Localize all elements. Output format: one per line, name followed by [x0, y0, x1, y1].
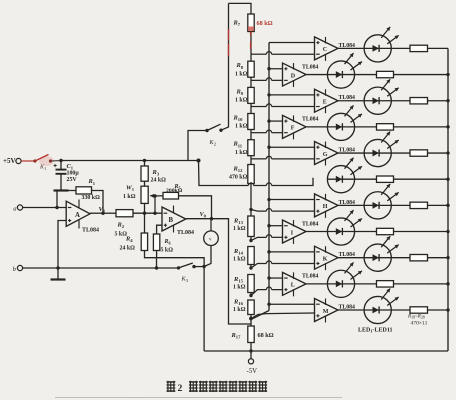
wire ladder tap to comparator row 7: [251, 210, 266, 212]
svg-text:470 kΩ: 470 kΩ: [229, 175, 248, 181]
wire op-amp I output to LED8: [306, 231, 327, 233]
wire op-amp H output to LED7: [338, 204, 364, 206]
node right bus row 6: [446, 178, 449, 181]
wire op-amp C output to LED1: [338, 47, 364, 49]
LED6: [327, 166, 354, 193]
resistor R27 470: [377, 281, 394, 287]
svg-text:LED1-LED11: LED1-LED11: [358, 328, 393, 334]
svg-text:1 kΩ: 1 kΩ: [233, 285, 246, 291]
wire LED8 to resistor: [355, 231, 377, 233]
resistor R5 200k feedback: [155, 195, 163, 197]
node ladder tap: [249, 266, 252, 269]
svg-text:1 kΩ: 1 kΩ: [235, 150, 248, 156]
node feedback junction: [55, 206, 58, 209]
node right bus row 7: [446, 204, 449, 207]
svg-text:470×11: 470×11: [411, 321, 428, 327]
resistor R7 68k: [248, 14, 254, 32]
resistor R21 470: [377, 124, 394, 130]
svg-text:2: 2: [178, 383, 183, 394]
caption figure 2 transient current detection circuit: [167, 381, 176, 383]
op-amp M TL084: [315, 299, 339, 322]
svg-text:F: F: [291, 126, 295, 132]
wire rail end down to LED6 feed: [199, 161, 249, 186]
wire V0 to ladder bottom return: [212, 219, 252, 324]
wire LED5 to resistor: [391, 152, 410, 154]
node -5V rail junction: [249, 349, 252, 352]
resistor R11 1 kohm: [250, 130, 252, 140]
svg-text:M: M: [323, 309, 329, 315]
wire resistor to right bus row 10: [394, 283, 449, 285]
wire R17 to -5V: [250, 343, 252, 359]
node right bus row 9: [446, 256, 449, 259]
node right bus row 3: [446, 99, 449, 102]
resistor R23 470: [377, 176, 394, 182]
svg-text:TL084: TL084: [302, 274, 319, 280]
node +5V terminal: [16, 158, 21, 163]
capacitor C1: [60, 161, 62, 170]
svg-text:+5V: +5V: [3, 157, 16, 165]
resistor R6 5k: [157, 225, 162, 234]
svg-text:H: H: [323, 204, 328, 210]
node ladder tap: [249, 239, 252, 242]
node right bus row 8: [446, 230, 449, 233]
resistor R12 470 kohm: [250, 156, 252, 165]
wire resistor to right bus row 4: [394, 126, 449, 128]
wire resistor to right bus row 9: [428, 257, 449, 259]
node ladder bottom junction: [249, 317, 253, 321]
node H tap: [249, 208, 252, 211]
svg-text:C: C: [323, 47, 327, 53]
red mark on left bypass wire: [228, 29, 230, 41]
ground below C1: [60, 179, 62, 190]
svg-text:D: D: [291, 73, 296, 79]
node right bus row 2: [446, 73, 449, 76]
op-amp I TL084: [283, 220, 307, 243]
node right bus row 4: [446, 125, 449, 128]
svg-text:1 kΩ: 1 kΩ: [233, 257, 246, 263]
node right bus row 5: [446, 151, 449, 154]
node V0: [210, 217, 213, 220]
svg-text:TL084: TL084: [302, 64, 319, 70]
wire LED2 to resistor: [355, 74, 377, 76]
resistor R18 470: [410, 45, 428, 51]
op-amp E TL084: [315, 89, 339, 112]
wire ladder tap to comparator row 3: [251, 106, 266, 108]
svg-text:24 kΩ: 24 kΩ: [120, 246, 136, 252]
wire bus to comparator C + input: [269, 42, 315, 44]
wire op-amp F output to LED4: [306, 126, 327, 128]
wire ladder tap to comparator row 11: [252, 313, 315, 318]
wire LED4 to resistor: [355, 126, 377, 128]
resistor R1 330k feedback: [57, 191, 76, 208]
LED2: [327, 61, 354, 88]
node bus tap row 9: [267, 250, 270, 253]
op-amp K TL084: [315, 246, 339, 269]
node a terminal: [17, 205, 22, 210]
op-amp H TL084: [315, 194, 339, 217]
svg-text:200kΩ: 200kΩ: [166, 188, 183, 194]
svg-text:L: L: [291, 283, 295, 289]
wire +5V to K1 (red): [21, 160, 34, 162]
svg-text:100μ: 100μ: [67, 171, 80, 177]
wire resistor to right bus row 5: [428, 152, 449, 154]
LED5: [364, 139, 391, 166]
wire W1 bottom to junction: [144, 203, 146, 213]
resistor R10 1 kohm: [250, 103, 252, 113]
svg-text:1 kΩ: 1 kΩ: [233, 307, 246, 313]
svg-text:G: G: [323, 152, 328, 158]
LED7: [364, 192, 391, 219]
svg-text:-5V: -5V: [247, 368, 258, 375]
node bus tap row 10: [267, 276, 270, 279]
svg-text:E: E: [323, 100, 327, 106]
LED1: [364, 35, 391, 62]
wire op-amp B output to V0: [186, 218, 212, 220]
svg-text:68 kΩ: 68 kΩ: [257, 20, 273, 27]
svg-text:24 kΩ: 24 kΩ: [151, 178, 167, 184]
resistor R15 1kohm: [248, 275, 254, 293]
node R3 top on rail: [143, 159, 146, 162]
resistor R26 470: [410, 254, 428, 260]
node right bus row 11: [446, 308, 449, 311]
wire ladder tap to comparator row 2: [251, 79, 266, 81]
node bus tap row 7: [267, 198, 270, 201]
svg-text:TL084: TL084: [177, 230, 194, 236]
svg-text:1 kΩ: 1 kΩ: [235, 98, 248, 104]
wire resistor to right bus row 2: [394, 74, 449, 76]
svg-text:TL084: TL084: [82, 228, 99, 234]
wire op-amp K output to LED9: [338, 257, 364, 259]
wire V0 comparator bus: [268, 43, 270, 311]
wire LED11 to resistor: [391, 309, 410, 311]
node b terminal: [17, 265, 22, 270]
svg-text:B: B: [169, 217, 174, 224]
wire ladder top from K2: [229, 3, 252, 14]
node ladder tap: [249, 317, 252, 320]
svg-text:25V: 25V: [67, 177, 78, 183]
wire ladder tap to comparator row 8: [251, 237, 266, 240]
node bus tap row 11: [267, 303, 270, 306]
svg-text:TL084: TL084: [302, 221, 319, 227]
wire op-amp G output to LED5: [338, 152, 364, 154]
resistor R24 470: [410, 202, 428, 208]
resistor R20 470: [410, 98, 428, 104]
wire ladder tap to comparator row 10: [251, 290, 266, 296]
LED4: [327, 113, 354, 140]
svg-text:68 kΩ: 68 kΩ: [258, 332, 274, 339]
svg-text:1: 1: [44, 166, 46, 171]
op-amp B TL084: [162, 207, 186, 231]
wire resistor to right bus row 11: [428, 309, 449, 311]
wire ladder tap to comparator row 9: [251, 263, 266, 268]
svg-text:TL084: TL084: [302, 117, 319, 123]
node ladder tap: [249, 294, 252, 297]
switch K1: [39, 156, 54, 166]
wire resistor to right bus row 1: [428, 47, 449, 49]
wire rail to K2: [188, 131, 207, 161]
wire right return bus: [447, 48, 449, 351]
LED8: [327, 218, 354, 245]
wire meter to K3 node: [204, 246, 211, 267]
wire R7 to first tap (red): [250, 32, 252, 55]
svg-text:1 kΩ: 1 kΩ: [235, 124, 248, 130]
wire a to op-amp A inverting input: [23, 207, 67, 209]
wire LED3 to resistor: [391, 100, 410, 102]
node wiper junction: [153, 194, 156, 197]
wire LED7 to resistor: [391, 204, 410, 206]
svg-text:2: 2: [214, 141, 216, 146]
LED10: [327, 270, 354, 297]
wire op-amp M output to LED11: [338, 309, 364, 311]
svg-text:330 kΩ: 330 kΩ: [82, 195, 101, 201]
wire ladder tap to comparator row 5: [251, 158, 266, 160]
svg-text:R6: R6: [164, 239, 171, 246]
switch K2: [205, 129, 208, 132]
node bus tap row 5: [267, 146, 270, 149]
op-amp C TL084: [315, 37, 339, 60]
wire ladder tap to comparator row 1: [251, 53, 266, 55]
wire LED9 to resistor: [391, 257, 410, 259]
wire A + input to ground bus: [58, 221, 66, 269]
resistor R4 24k: [144, 213, 146, 233]
wire resistor to right bus row 3: [428, 100, 449, 102]
resistor R28 470: [410, 307, 428, 313]
resistor R17 68k: [248, 326, 254, 343]
LED9: [364, 244, 391, 271]
resistor R14 1kohm: [248, 247, 254, 265]
meter V: [210, 219, 212, 231]
node bus tap row 8: [267, 224, 270, 227]
scan artifact line bottom: [55, 396, 342, 398]
wire b line: [23, 267, 179, 269]
node R4R6 bottom junction: [155, 266, 158, 269]
node rail end: [197, 159, 201, 163]
resistor R9 1 kohm: [250, 77, 252, 87]
wire R4R6 common down to b line: [156, 258, 158, 268]
wire op-amp L output to LED10: [306, 283, 327, 285]
op-amp G TL084: [315, 142, 339, 165]
resistor R2 5k: [103, 212, 116, 214]
wire LED10 to resistor: [355, 283, 377, 285]
op-amp L TL084: [283, 272, 307, 295]
wire LED6 to resistor: [355, 178, 377, 180]
wire -5V bottom rail: [204, 350, 448, 352]
wire R3 to W1: [144, 181, 146, 186]
resistor R16 1kohm: [248, 300, 254, 315]
node -5V terminal: [248, 359, 253, 364]
wire resistor to right bus row 7: [428, 204, 449, 206]
potentiometer W1 1k: [141, 186, 148, 203]
resistor R19 470: [377, 71, 394, 77]
resistor R3 24k: [144, 161, 146, 167]
LED11: [364, 296, 391, 323]
wiper arrow of W1: [150, 195, 155, 197]
node bus tap row 2: [267, 67, 270, 70]
op-amp D TL084: [283, 63, 307, 86]
node right bus row 10: [446, 282, 449, 285]
node bus tap row 3: [267, 93, 270, 96]
svg-text:A: A: [75, 212, 80, 219]
svg-text:1 kΩ: 1 kΩ: [235, 71, 248, 77]
svg-text:1 kΩ: 1 kΩ: [123, 194, 136, 200]
node C1 junction: [59, 159, 62, 162]
wire bus bottom to ladder: [253, 311, 269, 319]
resistor R22 470: [410, 150, 428, 156]
switch K3: [177, 266, 180, 269]
ground at b line: [56, 266, 59, 269]
wire op-amp A output to node V1: [90, 212, 103, 214]
node V1: [101, 212, 104, 215]
wire +5V rail: [61, 160, 199, 162]
op-amp F TL084: [283, 115, 307, 138]
node bus tap row 4: [267, 119, 270, 122]
wire op-amp E output to LED3: [338, 100, 364, 102]
wire ladder tap to comparator row 4: [251, 132, 266, 134]
wire R4 bottom: [145, 251, 157, 258]
resistor R8 1 kohm: [250, 54, 252, 61]
LED3: [364, 87, 391, 114]
resistor R13 1kohm: [248, 216, 254, 237]
svg-text:K: K: [323, 256, 328, 262]
wire resistor to right bus row 8: [394, 231, 449, 233]
op-amp A TL084: [66, 201, 90, 226]
wire LED1 to resistor: [391, 47, 410, 49]
resistor R25 470: [377, 228, 394, 234]
wire K3 node down to -5V rail: [203, 267, 205, 352]
svg-text:1 kΩ: 1 kΩ: [233, 226, 246, 232]
wire R4R6 common to K3 node: [157, 258, 205, 267]
wire op-amp D output to LED2: [306, 74, 327, 76]
wire ladder mid section: [250, 182, 252, 216]
svg-text:5 kΩ: 5 kΩ: [161, 248, 174, 254]
wire resistor to right bus row 6: [394, 178, 449, 180]
